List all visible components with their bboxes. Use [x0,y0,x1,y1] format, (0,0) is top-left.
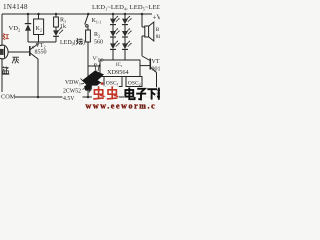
watermark bug char 1 [92,86,105,101]
watermark text zai (cut) [157,88,160,100]
LED LED9 [53,28,63,42]
svg-text:4.5V: 4.5V [63,96,75,102]
zener VDW1 [85,85,91,91]
motor M1 [0,45,8,59]
wire top +V rail [2,13,152,15]
junction dots top rail [27,13,144,99]
svg-text:VT1: VT1 [152,59,161,65]
svg-text:OSC2: OSC2 [128,81,141,87]
watermark text dian [124,87,160,101]
label 4.5V [63,94,83,103]
resistor R1 [54,14,59,30]
svg-text:XD9564: XD9564 [107,69,130,76]
wire VT2 emitter up [37,42,39,44]
wire left branch (blue lead) [1,58,3,90]
label blue lead char [2,66,9,74]
svg-text:IC1: IC1 [116,63,123,68]
OSC2 box [126,77,142,87]
wire IC VDD stub [88,65,100,67]
label grey lead char [12,57,19,63]
svg-text:V′DD: V′DD [93,56,104,62]
diode VD2 1N4148 [25,14,31,42]
LED column 2 (LED5-LED8) [122,14,132,60]
svg-text:1N4148: 1N4148 [3,3,28,11]
OSC1 box [104,77,122,87]
svg-text:+V: +V [153,14,161,22]
svg-text:8550: 8550 [35,50,47,56]
label green char [76,38,82,44]
wire bottom COM rail [15,96,158,98]
transistor VT2 8550 [30,44,38,59]
svg-text:9013: 9013 [152,67,161,73]
svg-text:LED1~LED4, LED5~LED8: LED1~LED4, LED5~LED8 [92,4,160,12]
svg-text:B: B [156,27,160,33]
svg-text:560: 560 [94,40,103,46]
transistor VT1 9013 [140,56,157,97]
op-amp IC1 XD9564 box [100,60,140,77]
watermark bug char 2 [105,86,118,101]
wire node A horizontal [28,41,56,43]
svg-text:8Ω: 8Ω [156,34,160,40]
svg-text:R1: R1 [60,18,66,24]
wire left to COM [1,90,3,92]
svg-text:COM: COM [1,94,16,101]
svg-text:www.eeworm.c: www.eeworm.c [86,101,157,110]
switch K1-1 [85,14,89,30]
svg-text:K2: K2 [36,26,42,33]
speaker B [142,14,154,56]
svg-text:VDW1: VDW1 [65,80,81,86]
wire VT2 collector down [37,59,39,97]
svg-text:LED9(: LED9( [60,39,76,47]
wire base lead (grey) [8,51,29,53]
svg-text:1k: 1k [60,24,66,30]
label red lead char [3,33,9,40]
relay K2 [34,14,44,42]
watermark text xia [147,89,157,99]
watermark black bug mascot [81,64,105,93]
svg-text:): ) [83,39,85,46]
svg-text:R2: R2 [94,32,100,38]
LED column 1 (LED1-LED4) [110,14,120,60]
resistor R2 [86,30,91,97]
svg-text:K1-1: K1-1 [92,18,102,25]
svg-text:VT2: VT2 [36,43,46,49]
watermark text zi [136,89,146,100]
wire left branch (red lead) [1,14,3,46]
